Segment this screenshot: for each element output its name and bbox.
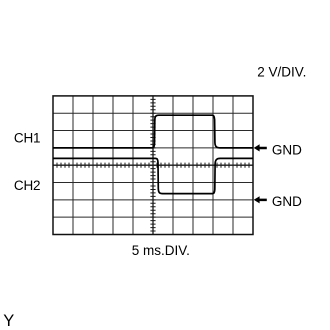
svg-text:2 V/DIV.: 2 V/DIV. [257,65,306,80]
svg-text:GND: GND [272,143,302,158]
svg-text:GND: GND [272,194,302,209]
svg-text:CH1: CH1 [14,130,40,145]
svg-text:5 ms.DIV.: 5 ms.DIV. [132,243,190,258]
svg-text:Y: Y [3,312,14,330]
svg-text:CH2: CH2 [14,178,40,193]
